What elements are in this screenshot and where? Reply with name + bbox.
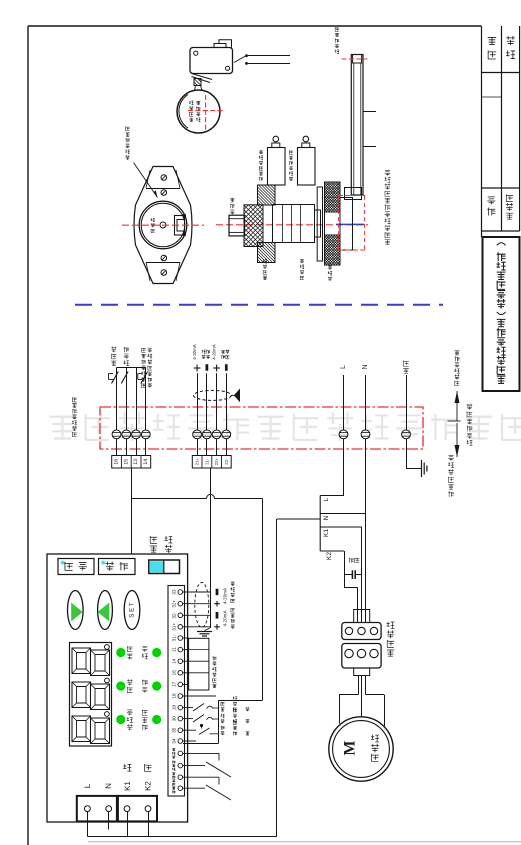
svg-text:L: L	[340, 365, 347, 369]
svg-text:K1: K1	[123, 781, 132, 791]
svg-text:21+: 21+	[195, 458, 200, 466]
svg-text:4-20mA: 4-20mA	[192, 344, 197, 359]
svg-text:N: N	[323, 515, 330, 520]
svg-text:19: 19	[171, 705, 176, 711]
svg-text:K1: K1	[323, 529, 330, 537]
svg-text:14: 14	[143, 459, 149, 465]
svg-text:4-20mA: 4-20mA	[222, 587, 227, 604]
svg-text:33: 33	[171, 589, 176, 595]
svg-text:4-20mA: 4-20mA	[212, 344, 217, 359]
svg-text:34: 34	[171, 738, 176, 744]
svg-text:K2: K2	[144, 781, 153, 791]
svg-text:S E T: S E T	[129, 602, 136, 618]
svg-text:16: 16	[114, 459, 120, 465]
svg-text:18: 18	[171, 693, 176, 699]
svg-text:N: N	[104, 783, 113, 789]
svg-text:L: L	[83, 783, 92, 788]
svg-text:17: 17	[171, 681, 176, 687]
svg-text:35: 35	[171, 727, 176, 733]
svg-text:32-: 32-	[171, 612, 176, 619]
svg-text:K2: K2	[326, 552, 333, 560]
svg-text:22-: 22-	[224, 458, 229, 465]
svg-text:30: 30	[171, 716, 176, 722]
svg-text:L: L	[323, 497, 330, 501]
svg-text:14: 14	[171, 658, 176, 664]
svg-text:32+: 32+	[171, 599, 176, 607]
svg-text:22+: 22+	[214, 458, 219, 466]
svg-text:31+: 31+	[171, 623, 176, 631]
svg-text:31-: 31-	[171, 634, 176, 641]
svg-text:N: N	[362, 364, 369, 369]
svg-text:21-: 21-	[204, 458, 209, 465]
svg-text:M: M	[342, 740, 359, 755]
svg-text:11: 11	[171, 647, 176, 652]
svg-text:4-20mA: 4-20mA	[222, 610, 227, 627]
svg-text:16: 16	[171, 670, 176, 676]
svg-text:15: 15	[123, 459, 129, 465]
svg-text:13: 13	[133, 459, 139, 465]
